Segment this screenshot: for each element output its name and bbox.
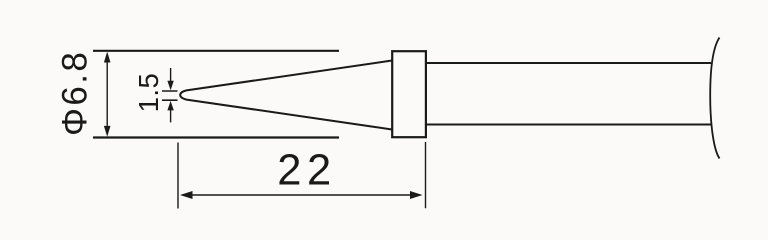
svg-text:Φ6.8: Φ6.8 [55, 50, 94, 136]
svg-text:1.5: 1.5 [133, 73, 164, 113]
svg-text:22: 22 [277, 146, 336, 194]
